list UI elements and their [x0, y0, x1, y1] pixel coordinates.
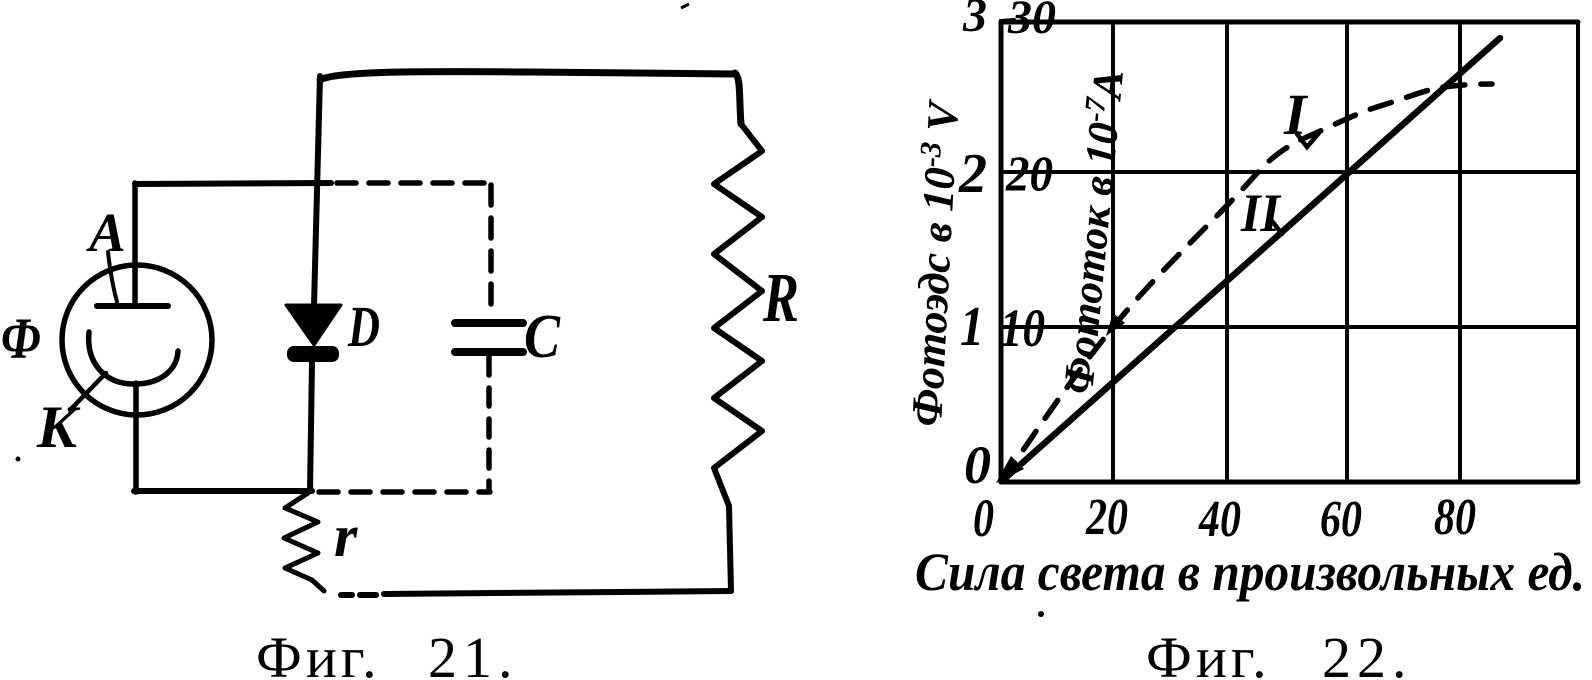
svg-text:10: 10: [1000, 298, 1045, 358]
svg-text:1: 1: [960, 296, 984, 358]
svg-text:C: C: [524, 303, 561, 371]
wire vertical from top bus down to diode anode: [314, 76, 320, 306]
svg-text:22.: 22.: [1322, 625, 1413, 680]
scan speck top: [681, 4, 689, 8]
scan speck below x title: [1038, 611, 1044, 617]
svg-text:21.: 21.: [428, 625, 519, 680]
arrowhead at origin of curve II: [996, 456, 1024, 483]
svg-text:20: 20: [1005, 145, 1053, 201]
svg-text:K: K: [36, 394, 81, 460]
svg-text:D: D: [347, 294, 380, 359]
dashed wire right vertical upper (to capacitor): [488, 185, 494, 316]
wire bottom bus from R to resistor r (with scan gaps): [341, 591, 731, 595]
wire cathode lead vertical: [133, 383, 139, 492]
wire top horizontal (node top bus): [320, 72, 735, 80]
wire bottom horizontal from tube to node r: [134, 488, 312, 494]
dashed wire bottom (box): [319, 489, 490, 495]
resistor r zigzag: [284, 493, 324, 591]
svg-text:Фиг.: Фиг.: [256, 625, 381, 680]
wire horizontal node A-bus from tube to diode branch: [135, 183, 331, 184]
svg-text:0: 0: [964, 435, 991, 495]
scan speck left of K: [16, 457, 21, 462]
curve II solid line: [1002, 38, 1500, 481]
svg-text:Ф: Ф: [1, 306, 41, 371]
svg-text:60: 60: [1320, 491, 1362, 548]
wire top-right corner down to resistor R: [735, 73, 741, 124]
capacitor C top plate: [455, 319, 523, 327]
diode D triangle: [286, 305, 341, 345]
svg-text:R: R: [762, 260, 799, 337]
y-axis top hook: [1001, 20, 1014, 45]
pointer line from label A to anode: [108, 252, 117, 302]
leader tail from label II: [1272, 221, 1282, 234]
svg-text:A: A: [86, 202, 126, 263]
svg-text:80: 80: [1434, 489, 1476, 546]
svg-text:20: 20: [1085, 489, 1128, 546]
grid horizontal lines: [1001, 20, 1578, 25]
wire diode cathode lead down to node r: [310, 362, 312, 491]
capacitor C bottom plate: [455, 348, 523, 356]
svg-text:II: II: [1240, 183, 1282, 243]
leader checkmark from label I to curve I: [1297, 133, 1319, 147]
svg-text:Сила света в произвольных ед.: Сила света в произвольных ед.: [915, 542, 1585, 602]
svg-text:30: 30: [1007, 0, 1056, 44]
dashed wire right vertical lower (from capacitor): [486, 357, 492, 489]
svg-text:I: I: [1283, 82, 1309, 147]
svg-text:0: 0: [973, 488, 994, 548]
pointer line from label K to cathode: [70, 373, 106, 410]
svg-text:Фиг.: Фиг.: [1146, 625, 1271, 680]
phototube envelope circle: [62, 265, 212, 415]
diode D cathode bar: [287, 346, 339, 362]
arrowhead on curve I at gridline crossing: [1106, 313, 1125, 336]
phototube cathode arc: [89, 332, 178, 384]
phototube anode bar: [97, 303, 168, 309]
dashed wire top (box): [337, 180, 492, 186]
wire anode lead vertical: [132, 183, 138, 304]
svg-text:40: 40: [1198, 491, 1241, 548]
svg-text:3: 3: [962, 0, 987, 42]
grid vertical lines: [999, 22, 1004, 482]
wire from resistor R bottom down to bottom bus: [729, 506, 731, 591]
svg-text:r: r: [334, 503, 358, 569]
curve I dashed: [1002, 84, 1492, 481]
resistor R zigzag: [714, 124, 762, 506]
